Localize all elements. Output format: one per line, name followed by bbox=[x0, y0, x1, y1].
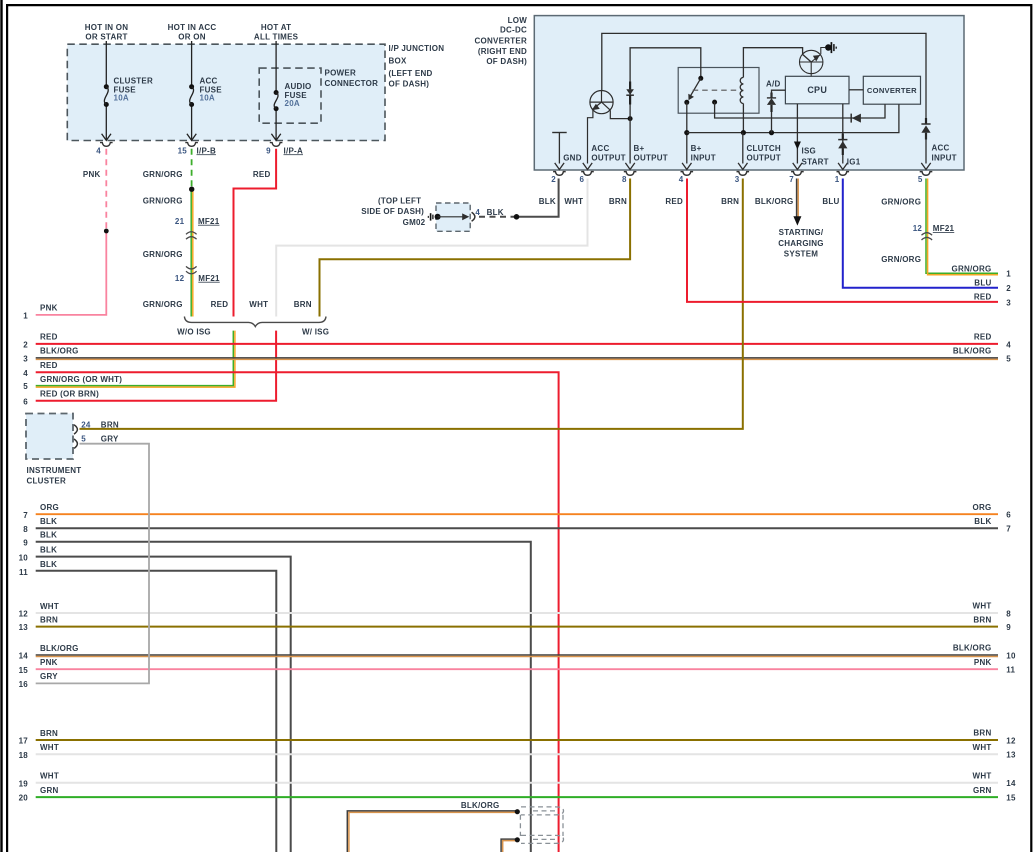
svg-text:12: 12 bbox=[1006, 736, 1016, 745]
wire WHT from dcdc pin6 to brace bbox=[276, 179, 587, 317]
svg-text:7: 7 bbox=[789, 175, 794, 184]
svg-text:GRY: GRY bbox=[101, 435, 119, 444]
svg-text:3: 3 bbox=[735, 175, 740, 184]
svg-text:BRN: BRN bbox=[609, 197, 627, 206]
svg-text:14: 14 bbox=[19, 652, 29, 661]
power connector box bbox=[259, 68, 321, 123]
svg-text:10: 10 bbox=[19, 553, 29, 562]
svg-text:PNK: PNK bbox=[83, 170, 101, 179]
wire BLK row11 down to bottom bbox=[36, 571, 277, 852]
svg-text:ORG: ORG bbox=[40, 503, 59, 512]
svg-text:4: 4 bbox=[96, 146, 101, 155]
svg-text:4: 4 bbox=[679, 175, 684, 184]
low dc-dc converter box bbox=[534, 16, 964, 170]
svg-text:CLUSTER: CLUSTER bbox=[114, 77, 154, 86]
svg-text:14: 14 bbox=[1006, 779, 1016, 788]
svg-text:5: 5 bbox=[918, 175, 923, 184]
svg-text:13: 13 bbox=[19, 623, 29, 632]
svg-text:BLK: BLK bbox=[40, 531, 57, 540]
svg-text:(LEFT END: (LEFT END bbox=[389, 69, 433, 78]
svg-text:5: 5 bbox=[81, 435, 86, 444]
svg-text:GRN: GRN bbox=[973, 786, 992, 795]
svg-text:GRN/ORG: GRN/ORG bbox=[881, 198, 921, 207]
wire BLK dcdc pin2 to GM02 bbox=[517, 179, 559, 217]
svg-text:GRN/ORG: GRN/ORG bbox=[881, 255, 921, 264]
svg-text:A/D: A/D bbox=[766, 80, 781, 89]
svg-text:BLK/ORG: BLK/ORG bbox=[40, 347, 79, 356]
svg-text:BRN: BRN bbox=[101, 420, 119, 429]
svg-text:5: 5 bbox=[1006, 354, 1011, 363]
instrument cluster cup pin24 bbox=[74, 425, 77, 434]
relay contact b bbox=[712, 100, 717, 105]
svg-text:INSTRUMENT: INSTRUMENT bbox=[27, 466, 82, 475]
svg-text:BRN: BRN bbox=[721, 197, 739, 206]
svg-text:OF DASH): OF DASH) bbox=[389, 79, 430, 88]
connector cup pin 15 bbox=[185, 143, 198, 147]
svg-text:BLK: BLK bbox=[40, 560, 57, 569]
cluster fuse F1 bbox=[104, 84, 109, 89]
svg-text:OR ON: OR ON bbox=[178, 32, 205, 41]
svg-text:GRN/ORG: GRN/ORG bbox=[143, 170, 183, 179]
svg-text:PNK: PNK bbox=[40, 304, 58, 313]
dcdc internal top rail bbox=[602, 33, 926, 124]
svg-text:4: 4 bbox=[475, 208, 480, 217]
relay pivot junction bbox=[698, 76, 703, 81]
wire BLK/ORG dcdc pin7 to starting system arrow bbox=[797, 179, 799, 218]
svg-text:2: 2 bbox=[1006, 284, 1011, 293]
wire BLK row10 down to bottom bbox=[36, 557, 291, 852]
svg-text:6: 6 bbox=[23, 397, 28, 406]
svg-text:4: 4 bbox=[1006, 340, 1011, 349]
CPU to CONVERTER link bbox=[849, 89, 863, 91]
wire RED from fuse pin 9 to brace bbox=[234, 149, 277, 317]
coil top to rail bbox=[743, 48, 811, 78]
right row numbers bbox=[1006, 270, 1016, 803]
Q1 emitter arrowhead bbox=[592, 104, 600, 111]
svg-text:17: 17 bbox=[19, 737, 29, 746]
svg-text:BRN: BRN bbox=[973, 615, 991, 624]
svg-text:RED: RED bbox=[211, 300, 229, 309]
svg-text:BLK: BLK bbox=[539, 197, 556, 206]
svg-text:18: 18 bbox=[19, 751, 29, 760]
bottom connector dashed shell bbox=[520, 807, 563, 844]
junction dot bottom connector pin b bbox=[515, 837, 520, 842]
svg-text:ACC: ACC bbox=[200, 77, 218, 86]
svg-text:3: 3 bbox=[23, 355, 28, 364]
wire BLK/ORG row14 bbox=[36, 654, 998, 656]
instrument cluster cup pin5 bbox=[74, 439, 77, 448]
svg-text:2: 2 bbox=[551, 175, 556, 184]
GM02 cup bbox=[472, 212, 475, 221]
wire BLK row9 down to connector bbox=[36, 542, 531, 852]
svg-text:I/P-A: I/P-A bbox=[284, 146, 303, 155]
svg-text:20A: 20A bbox=[285, 99, 300, 108]
junction dot B+ input bus bbox=[684, 130, 689, 135]
relay coil L1 bbox=[740, 77, 743, 103]
svg-text:15: 15 bbox=[1006, 794, 1016, 803]
wire coil bottom to bus bbox=[742, 104, 744, 133]
svg-text:12: 12 bbox=[175, 274, 185, 283]
wire WHT row12 bbox=[36, 612, 998, 614]
GM02 internal arrow bbox=[438, 216, 464, 218]
svg-text:7: 7 bbox=[1006, 525, 1011, 534]
svg-text:24: 24 bbox=[81, 420, 91, 429]
svg-text:10A: 10A bbox=[114, 93, 129, 102]
svg-text:CONVERTER: CONVERTER bbox=[867, 86, 917, 95]
svg-text:(TOP LEFT: (TOP LEFT bbox=[378, 196, 421, 205]
arrow at fuse box pin 4 bbox=[102, 134, 111, 141]
svg-text:AUDIO: AUDIO bbox=[285, 82, 312, 91]
instrument cluster box bbox=[26, 414, 73, 460]
svg-text:MF21: MF21 bbox=[198, 217, 220, 226]
svg-text:8: 8 bbox=[1006, 609, 1011, 618]
svg-text:GRN/ORG (OR WHT): GRN/ORG (OR WHT) bbox=[40, 375, 122, 384]
wire clutch lead to pin 3 bbox=[742, 133, 744, 164]
wire IG1 lead bbox=[842, 104, 844, 164]
svg-text:7: 7 bbox=[23, 511, 28, 520]
svg-text:RED: RED bbox=[253, 170, 271, 179]
svg-text:GRN/ORG: GRN/ORG bbox=[143, 196, 183, 205]
svg-text:RED (OR BRN): RED (OR BRN) bbox=[40, 390, 99, 399]
wire BRN instrument cluster pin24 to dcdc pin3 bbox=[80, 179, 743, 429]
dcdc pin arrows bbox=[555, 163, 931, 170]
svg-text:RED: RED bbox=[974, 333, 992, 342]
svg-text:8: 8 bbox=[622, 175, 627, 184]
ground symbol inside dcdc bbox=[552, 132, 567, 134]
wire BLK/ORG row3 spanning page bbox=[36, 357, 998, 359]
svg-text:WHT: WHT bbox=[249, 300, 268, 309]
svg-text:CLUTCH: CLUTCH bbox=[747, 144, 781, 153]
svg-text:12: 12 bbox=[913, 224, 923, 233]
svg-text:BLU: BLU bbox=[822, 197, 839, 206]
svg-text:OUTPUT: OUTPUT bbox=[747, 154, 781, 163]
brace W/O ISG / W/ ISG bbox=[184, 317, 326, 327]
wire PNK dashed from fuse pin 4 bbox=[105, 149, 107, 231]
svg-text:11: 11 bbox=[1006, 666, 1015, 675]
svg-text:12: 12 bbox=[19, 610, 29, 619]
svg-text:B+: B+ bbox=[691, 144, 702, 153]
svg-text:BLK/ORG: BLK/ORG bbox=[755, 197, 794, 206]
connector cup pin 9 bbox=[270, 143, 283, 147]
svg-text:10: 10 bbox=[1006, 651, 1016, 660]
svg-text:9: 9 bbox=[266, 146, 271, 155]
svg-text:BLK: BLK bbox=[974, 517, 991, 526]
svg-text:1: 1 bbox=[23, 312, 28, 321]
svg-text:BRN: BRN bbox=[973, 729, 991, 738]
svg-text:GRN/ORG: GRN/ORG bbox=[143, 250, 183, 259]
svg-text:RED: RED bbox=[974, 293, 992, 302]
svg-text:IG1: IG1 bbox=[847, 158, 861, 167]
arrow to starting/charging system bbox=[793, 216, 801, 225]
svg-text:GRN/ORG: GRN/ORG bbox=[143, 300, 183, 309]
relay switch arm K1 bbox=[690, 78, 701, 96]
GM02 internal dot bbox=[435, 214, 441, 220]
wire GRY row16 from instrument cluster pin5 bbox=[36, 444, 149, 684]
CPU box U1 bbox=[785, 76, 849, 104]
svg-text:INPUT: INPUT bbox=[691, 154, 716, 163]
svg-text:BOX: BOX bbox=[389, 56, 408, 65]
svg-text:RED: RED bbox=[665, 197, 683, 206]
junction dot coil bus bbox=[741, 130, 746, 135]
svg-text:GRN/ORG: GRN/ORG bbox=[952, 264, 992, 273]
svg-text:BLU: BLU bbox=[974, 278, 991, 287]
wire ORG row7 bbox=[36, 513, 998, 515]
right row labels bbox=[952, 264, 992, 795]
svg-text:WHT: WHT bbox=[973, 743, 992, 752]
svg-text:HOT IN ON: HOT IN ON bbox=[85, 23, 129, 32]
svg-text:CONNECTOR: CONNECTOR bbox=[325, 79, 379, 88]
svg-text:WHT: WHT bbox=[973, 602, 992, 611]
svg-text:MF21: MF21 bbox=[933, 224, 955, 233]
svg-text:5: 5 bbox=[23, 382, 28, 391]
transistor Q1 bbox=[588, 91, 631, 164]
svg-text:HOT IN ACC: HOT IN ACC bbox=[168, 23, 217, 32]
dcdc rail2 with diode D1 bbox=[630, 48, 701, 119]
svg-text:SYSTEM: SYSTEM bbox=[784, 249, 818, 258]
wire BLU dcdc pin1 to right edge bbox=[843, 179, 998, 288]
svg-text:WHT: WHT bbox=[40, 602, 59, 611]
junction dot on PNK wire bbox=[104, 229, 109, 234]
wire PNK row15 bbox=[36, 668, 998, 670]
wire BRN row13 bbox=[36, 626, 998, 628]
svg-text:WHT: WHT bbox=[40, 743, 59, 752]
svg-text:W/O ISG: W/O ISG bbox=[177, 327, 211, 336]
wire RED below brace to row6 bbox=[36, 331, 276, 401]
svg-text:11: 11 bbox=[19, 568, 28, 577]
svg-text:BRN: BRN bbox=[40, 615, 58, 624]
svg-text:PNK: PNK bbox=[40, 658, 58, 667]
svg-text:OUTPUT: OUTPUT bbox=[634, 154, 668, 163]
wire WHT row18 bbox=[36, 753, 998, 755]
svg-text:PNK: PNK bbox=[974, 658, 992, 667]
svg-text:ORG: ORG bbox=[973, 503, 992, 512]
wire BRN row17 bbox=[36, 739, 998, 741]
svg-text:ISG: ISG bbox=[802, 147, 817, 156]
svg-text:6: 6 bbox=[579, 175, 584, 184]
fuse wire hot-in-on bbox=[105, 41, 107, 86]
svg-text:10A: 10A bbox=[200, 93, 215, 102]
svg-text:CONVERTER: CONVERTER bbox=[475, 36, 527, 45]
svg-text:ACC: ACC bbox=[591, 144, 609, 153]
svg-text:HOT AT: HOT AT bbox=[261, 23, 291, 32]
GM02 case ground bbox=[430, 213, 432, 220]
wire GRN/ORG vertical pin15 to brace bbox=[191, 189, 193, 316]
page edge line bbox=[0, 0, 2, 852]
svg-text:2: 2 bbox=[23, 341, 28, 350]
wire BLK dashed to GM02 bbox=[479, 216, 517, 218]
wire WHT row19 bbox=[36, 782, 998, 784]
svg-text:RED: RED bbox=[40, 361, 58, 370]
svg-text:SIDE OF DASH): SIDE OF DASH) bbox=[361, 207, 424, 216]
svg-text:21: 21 bbox=[175, 217, 185, 226]
arrow at fuse box pin 9 bbox=[271, 134, 280, 141]
svg-text:15: 15 bbox=[178, 146, 188, 155]
svg-text:I/P-B: I/P-B bbox=[197, 146, 216, 155]
relay contact a bbox=[684, 100, 689, 105]
wire GRN/ORG dashed from fuse pin 15 bbox=[191, 149, 193, 189]
relay dashed link bbox=[693, 89, 738, 91]
relay box bbox=[678, 68, 759, 114]
acc fuse F2 bbox=[189, 84, 194, 89]
junction dot on GRN/ORG wire bbox=[189, 187, 194, 192]
diode D5 on ACC input lead bbox=[921, 125, 930, 132]
wire ACC input lead to pin 5 bbox=[925, 133, 927, 164]
svg-text:BLK/ORG: BLK/ORG bbox=[461, 801, 500, 810]
inline connector MF21 pin12 right bbox=[922, 233, 933, 240]
svg-text:20: 20 bbox=[19, 794, 29, 803]
svg-text:9: 9 bbox=[1006, 623, 1011, 632]
diode D4 on IG1 lead bbox=[838, 141, 847, 148]
arrow at fuse box pin 15 bbox=[187, 134, 196, 141]
case ground bars bbox=[830, 42, 832, 53]
audio fuse F3 bbox=[274, 90, 279, 95]
svg-text:OF DASH): OF DASH) bbox=[486, 57, 527, 66]
svg-text:BLK/ORG: BLK/ORG bbox=[953, 644, 992, 653]
wire contact b to bus2 bbox=[715, 102, 885, 118]
svg-text:GRN: GRN bbox=[40, 786, 59, 795]
I/P junction box bbox=[67, 44, 385, 140]
svg-text:BLK/ORG: BLK/ORG bbox=[40, 644, 79, 653]
fuse wire hot-at-all-times bbox=[275, 41, 277, 92]
svg-text:OUTPUT: OUTPUT bbox=[591, 154, 625, 163]
svg-text:6: 6 bbox=[1006, 511, 1011, 520]
junction dot bottom connector pin a bbox=[515, 809, 520, 814]
left row numbers bbox=[19, 312, 29, 803]
svg-text:(RIGHT END: (RIGHT END bbox=[478, 47, 527, 56]
A/D branch with diode D3 bbox=[771, 105, 773, 133]
svg-text:3: 3 bbox=[1006, 298, 1011, 307]
wire BLK/ORG bottom 2 bbox=[501, 839, 517, 852]
svg-text:BLK/ORG: BLK/ORG bbox=[953, 347, 992, 356]
svg-text:BLK: BLK bbox=[487, 208, 504, 217]
wire contact a to pin 4 bbox=[686, 102, 688, 163]
svg-text:CHARGING: CHARGING bbox=[778, 239, 824, 248]
transistor Q2 bbox=[800, 48, 826, 77]
svg-text:OR START: OR START bbox=[85, 32, 127, 41]
fuse wire hot-in-acc bbox=[191, 41, 193, 86]
svg-text:GND: GND bbox=[563, 154, 582, 163]
wire GRN/ORG below brace to row5 bbox=[36, 331, 235, 388]
svg-text:GRY: GRY bbox=[40, 672, 58, 681]
svg-text:9: 9 bbox=[23, 538, 28, 547]
svg-text:STARTING/: STARTING/ bbox=[779, 228, 824, 237]
wire RED row4 to long vertical bbox=[36, 372, 559, 852]
svg-text:ALL TIMES: ALL TIMES bbox=[254, 32, 299, 41]
svg-text:WHT: WHT bbox=[973, 772, 992, 781]
diode D1 on B+ output branch bbox=[626, 89, 634, 95]
svg-text:13: 13 bbox=[1006, 751, 1016, 760]
wire PNK row1 left bbox=[36, 231, 107, 315]
svg-text:RED: RED bbox=[40, 333, 58, 342]
junction dot on BLK wire bbox=[514, 214, 520, 220]
svg-text:INPUT: INPUT bbox=[932, 154, 957, 163]
svg-text:ACC: ACC bbox=[932, 143, 950, 152]
wire B+ output lead to pin 8 bbox=[629, 119, 631, 164]
CONVERTER box bbox=[863, 76, 920, 104]
wire BRN from dcdc pin8 to brace bbox=[320, 179, 631, 317]
svg-text:BRN: BRN bbox=[40, 729, 58, 738]
inline connector MF21 pin21 bbox=[186, 232, 197, 239]
svg-text:15: 15 bbox=[19, 666, 29, 675]
svg-text:MF21: MF21 bbox=[198, 274, 220, 283]
wire GRN row20 bbox=[36, 796, 998, 798]
wire BLK/ORG bottom 1 bbox=[347, 811, 517, 852]
diode D2 pointing left on bus2 bbox=[852, 114, 861, 123]
wire GRN/ORG dcdc pin5 to right edge bbox=[926, 179, 998, 275]
svg-text:START: START bbox=[802, 158, 829, 167]
svg-text:B+: B+ bbox=[634, 144, 645, 153]
svg-text:19: 19 bbox=[19, 779, 29, 788]
svg-text:DC-DC: DC-DC bbox=[500, 26, 527, 35]
internal bus1 bbox=[687, 104, 899, 132]
svg-text:POWER: POWER bbox=[325, 69, 356, 78]
svg-text:GM02: GM02 bbox=[403, 218, 426, 227]
svg-text:16: 16 bbox=[19, 680, 29, 689]
svg-text:W/ ISG: W/ ISG bbox=[302, 327, 329, 336]
svg-text:I/P JUNCTION: I/P JUNCTION bbox=[389, 44, 445, 53]
svg-text:BLK: BLK bbox=[40, 545, 57, 554]
case ground dot bbox=[825, 44, 831, 50]
wire BLK row8 bbox=[36, 527, 998, 529]
dcdc pin cups bbox=[553, 172, 932, 176]
svg-text:WHT: WHT bbox=[564, 197, 583, 206]
wire RED dcdc pin4 to right edge bbox=[687, 179, 998, 302]
svg-text:1: 1 bbox=[835, 175, 840, 184]
junction dot B+ output bbox=[628, 116, 633, 121]
svg-text:1: 1 bbox=[1006, 270, 1011, 279]
svg-text:WHT: WHT bbox=[40, 772, 59, 781]
wire ISG START lead bbox=[796, 104, 798, 164]
GM02 connector box bbox=[436, 203, 470, 231]
svg-text:4: 4 bbox=[23, 369, 28, 378]
svg-text:8: 8 bbox=[23, 525, 28, 534]
connector cup pin 4 bbox=[100, 143, 113, 147]
inline connector MF21 pin12 bbox=[186, 266, 197, 273]
svg-text:BLK: BLK bbox=[40, 517, 57, 526]
Q2 emitter arrowhead bbox=[813, 55, 820, 62]
ISG START mid arrow bbox=[794, 142, 801, 150]
junction dot A/D bus bbox=[769, 130, 774, 135]
svg-text:CPU: CPU bbox=[807, 85, 827, 95]
svg-text:BRN: BRN bbox=[294, 300, 312, 309]
wire RED row2 spanning page bbox=[36, 343, 998, 345]
svg-text:LOW: LOW bbox=[508, 16, 528, 25]
svg-text:CLUSTER: CLUSTER bbox=[27, 476, 67, 485]
